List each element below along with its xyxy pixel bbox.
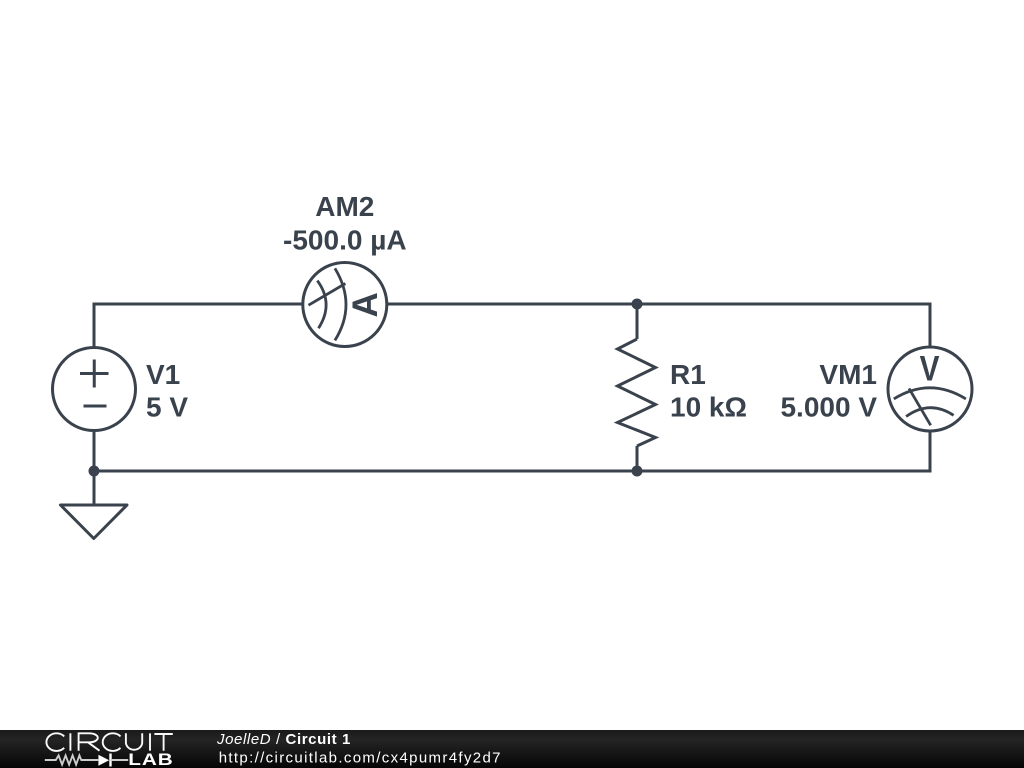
voltmeter VM1 [888,347,972,431]
footer bar [0,730,1024,768]
AM2 meter needle [309,284,346,306]
svg-text:-500.0 µA: -500.0 µA [283,225,407,256]
wire top rail: V1 plus terminal through AM2 and node A to VM1 plus [93,303,932,306]
logo diode cathode bar [109,754,111,767]
logo diode triangle [98,755,109,766]
AM2 circle body [303,263,387,347]
svg-text:5.000 V: 5.000 V [780,392,877,423]
junction dot node A: R1 top on top rail [632,299,643,310]
wire R1 bottom lead [636,446,639,471]
svg-text:http://circuitlab.com/cx4pumr4: http://circuitlab.com/cx4pumr4fy2d7 [219,750,502,767]
AM2 meter scale inner arc [317,281,326,329]
ammeter AM2 [303,263,387,347]
wire left vertical: V1 to top rail [93,304,96,471]
svg-text:V: V [920,349,940,388]
resistor R1 zigzag [618,339,656,446]
V1 minus sign [84,405,107,408]
ground symbol [61,505,128,539]
VM1 meter scale inner arc [906,408,954,417]
svg-text:LAB: LAB [128,751,174,768]
junction dot at V1 minus / ground node [89,466,100,477]
svg-text:5 V: 5 V [146,392,188,423]
junction dot node B: R1 bottom on bottom rail [632,466,643,477]
logo resistor zigzag symbol [45,755,99,764]
svg-text:AM2: AM2 [315,191,374,222]
voltage source V1 [53,348,136,431]
V1 circle body [53,348,136,431]
VM1 meter scale outer arc [894,388,966,399]
wire R1 top lead [636,304,639,339]
svg-text:V1: V1 [146,359,180,390]
AM2 meter scale outer arc [335,268,346,340]
wire bottom rail: V1 minus through node B to VM1 minus [93,470,931,473]
wire ground stem [93,471,96,505]
svg-text:A: A [346,292,385,317]
VM1 meter needle [909,388,931,425]
V1 plus sign [80,360,109,388]
svg-text:JoelleD / Circuit 1: JoelleD / Circuit 1 [216,731,351,748]
logo wire to LAB [111,759,129,761]
logo CIRCUIT wordmark [46,733,172,751]
wire right vertical: top rail to VM1 to bottom rail [929,304,932,473]
svg-text:VM1: VM1 [819,359,877,390]
VM1 circle body [888,347,972,431]
svg-text:R1: R1 [670,359,706,390]
svg-text:10 kΩ: 10 kΩ [670,392,747,423]
